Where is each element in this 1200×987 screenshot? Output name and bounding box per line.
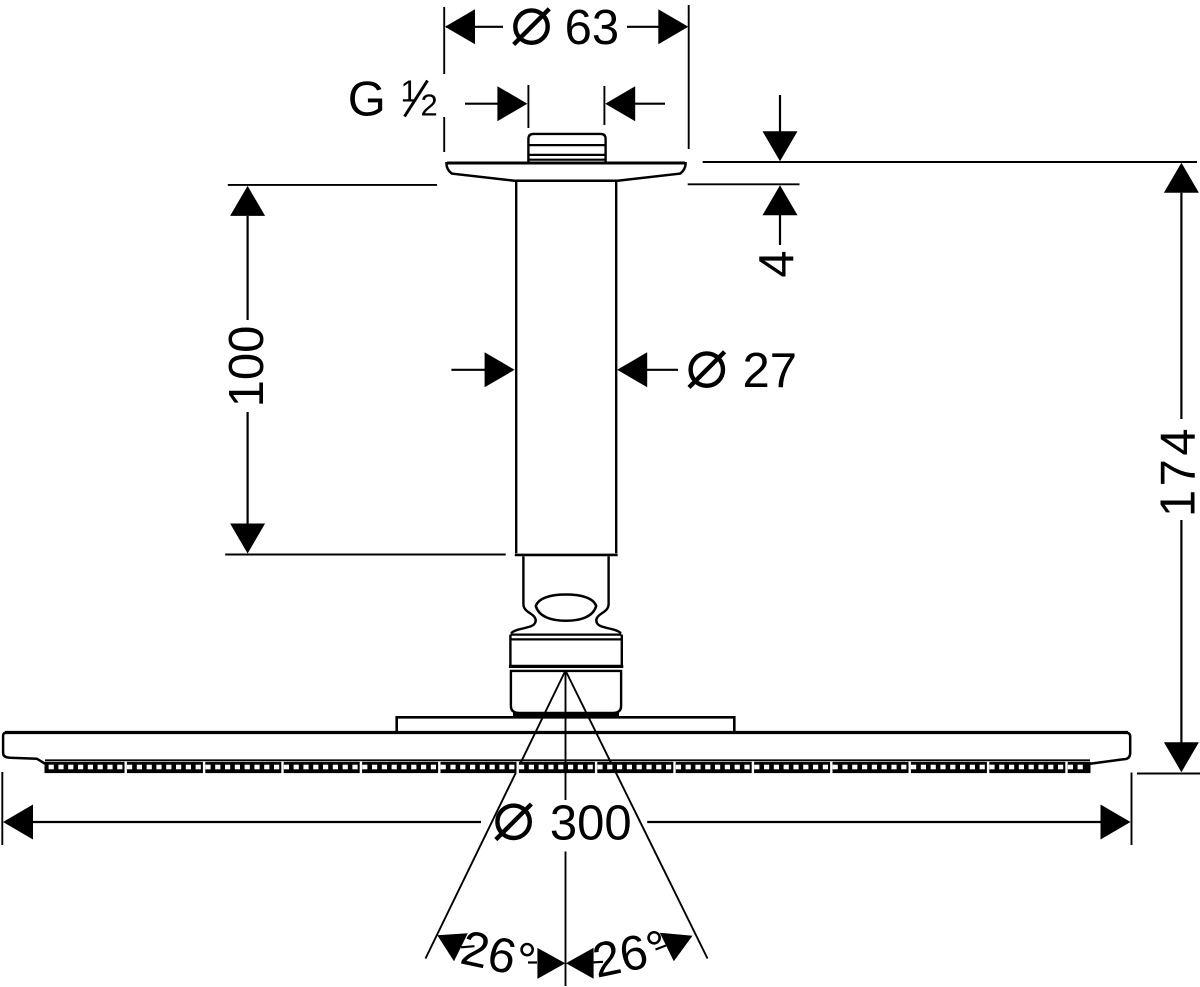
ball joint tube left profile <box>511 556 536 633</box>
nut body <box>510 635 621 665</box>
dimension G1/2: right arrow <box>604 86 665 125</box>
ball joint lens window <box>536 595 596 621</box>
dimension Ø300: right arrow <box>647 805 1130 840</box>
svg-text:2: 2 <box>421 88 438 123</box>
ceiling connector: threaded nipple G1/2 <box>528 134 605 164</box>
disc top thick edge <box>5 731 1128 734</box>
svg-text:G: G <box>348 73 386 127</box>
spray cone center line <box>565 671 567 987</box>
dimension Ø63: diameter symbol <box>514 9 550 45</box>
dimension 4: bottom reference line <box>688 183 800 185</box>
svg-text:100: 100 <box>220 326 274 408</box>
dimension G1/2: left arrow <box>465 85 528 128</box>
ceiling escutcheon plate <box>446 163 685 181</box>
dimension Ø300: extension line right <box>1131 773 1133 846</box>
svg-text:174: 174 <box>1152 425 1200 517</box>
dimension Ø63: extension line left <box>443 7 445 152</box>
shower arm pipe Ø27 <box>516 182 616 554</box>
svg-text:1: 1 <box>401 73 418 108</box>
dimension Ø63: extension line right <box>688 5 690 149</box>
dimension Ø300: diameter symbol <box>496 804 532 840</box>
nozzle strip band <box>45 760 1091 773</box>
dimension 4: lower arrow pointing up <box>763 185 798 245</box>
dimension 174: bottom reference line <box>1137 773 1200 775</box>
dimension 174: top arrow pointing up <box>1164 163 1199 419</box>
angle 26 right: outer arrow on spray line <box>656 933 693 962</box>
dimension 100: top reference line <box>228 184 437 186</box>
angle 26 left: outer arrow on spray line <box>437 933 474 961</box>
collar ring top line <box>511 633 622 635</box>
spray cone left line <box>426 671 566 959</box>
threaded nipple: thread lines <box>528 145 605 160</box>
nozzle strip holes <box>49 761 1083 773</box>
dimension Ø27: left arrow <box>451 352 514 387</box>
pipe bottom cap line <box>515 554 618 557</box>
dimension 100: top arrow pointing up <box>230 186 265 320</box>
angle 26: center-right arrow <box>566 948 603 979</box>
ball housing boss <box>511 671 621 713</box>
spray cone right line <box>566 671 708 959</box>
dimension 4: upper arrow pointing down <box>763 95 798 161</box>
dimension Ø63: left arrow <box>445 9 503 44</box>
svg-text:4: 4 <box>750 250 804 277</box>
shower head disc outline <box>3 733 1130 764</box>
dimension 174: bottom arrow pointing down <box>1164 520 1199 772</box>
angle 26: center-left arrow <box>528 948 565 979</box>
nut bottom thick edge <box>509 665 623 668</box>
boss bottom thick edge <box>513 713 619 716</box>
svg-text:27: 27 <box>742 344 797 398</box>
mounting step on disc <box>397 717 735 731</box>
svg-text:300: 300 <box>550 796 632 850</box>
ball joint tube right profile <box>596 556 621 633</box>
dimension Ø27: right arrow <box>617 352 678 387</box>
dimension 100: bottom reference line <box>225 554 506 556</box>
dimension Ø27: diameter symbol <box>689 352 725 388</box>
dimension Ø300: extension line left <box>1 772 3 845</box>
dimension 4: top reference line <box>703 161 1197 163</box>
dimension Ø300: left arrow <box>3 805 481 840</box>
svg-text:63: 63 <box>565 1 620 55</box>
label G 1/2 <box>348 73 438 127</box>
dimension 100: bottom arrow pointing down <box>230 412 265 554</box>
dimension Ø63: right arrow <box>627 9 688 44</box>
